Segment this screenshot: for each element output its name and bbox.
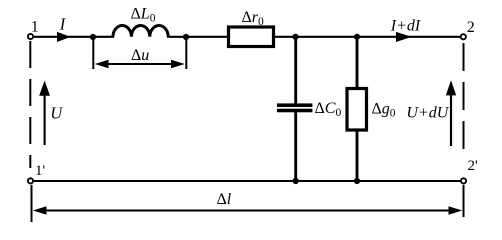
- current arrow I+dI: [396, 32, 412, 42]
- wire: node B to resistor: [186, 36, 228, 38]
- inductor L1 (ΔL0): [113, 25, 168, 36]
- svg-text:U: U: [50, 103, 63, 122]
- bottom wire: node F to terminal 2': [357, 180, 461, 182]
- wire: inductor to node B: [167, 36, 186, 38]
- terminal 1': [28, 178, 33, 183]
- svg-text:Δu: Δu: [131, 47, 149, 64]
- dashed line below terminal 2: [463, 43, 465, 158]
- svg-text:1: 1: [31, 19, 39, 36]
- capacitor branch lower wire: [294, 112, 297, 181]
- svg-text:2': 2': [468, 158, 479, 174]
- voltage arrow U+dU: [450, 92, 452, 146]
- Δl extension line right: [463, 185, 465, 217]
- Δu extension line right: [185, 37, 187, 69]
- Δu dimension arrow: [100, 63, 179, 65]
- node C (capacitor top tap): [292, 34, 298, 40]
- capacitor C1 (ΔC0) plates: [277, 103, 312, 107]
- current arrow I: [57, 32, 71, 42]
- terminal 2': [461, 178, 466, 183]
- conductance branch upper wire: [356, 37, 359, 88]
- conductance branch lower wire: [356, 130, 359, 181]
- voltage arrow U: [43, 92, 45, 145]
- Δl dimension arrow: [37, 210, 458, 212]
- svg-text:Δr0: Δr0: [242, 9, 265, 28]
- node D (conductance top tap): [354, 34, 360, 40]
- node E (capacitor bottom tap): [293, 178, 299, 184]
- Δu extension line left: [92, 37, 94, 69]
- bottom wire: 1' to node E: [34, 180, 296, 182]
- conductance G1 (Δg0): [347, 89, 367, 131]
- terminal 1: [28, 34, 33, 39]
- Δl extension line left: [31, 185, 33, 222]
- node B (right inductor node): [183, 34, 189, 40]
- svg-text:I+dI: I+dI: [390, 17, 421, 34]
- svg-text:Δg0: Δg0: [372, 101, 396, 120]
- svg-text:ΔC0: ΔC0: [315, 100, 342, 119]
- svg-text:Δl: Δl: [217, 191, 232, 208]
- svg-text:2: 2: [467, 19, 475, 36]
- bottom wire: node E to node F: [296, 180, 357, 182]
- svg-text:I: I: [59, 15, 67, 34]
- wire: node D to terminal 2: [357, 36, 461, 38]
- resistor R1 (Δr0): [229, 27, 274, 47]
- node F (conductance bottom tap): [354, 178, 360, 184]
- svg-text:1': 1': [35, 163, 46, 179]
- dashed line below terminal 1: [29, 41, 31, 168]
- svg-text:U+dU: U+dU: [406, 104, 449, 121]
- node A (left inductor node): [90, 34, 96, 40]
- wire: resistor to node C: [275, 36, 296, 38]
- wire: terminal 1 to node A: [34, 36, 93, 38]
- capacitor branch upper wire: [294, 37, 297, 104]
- svg-text:ΔL0: ΔL0: [131, 5, 156, 24]
- wire: node A to inductor: [93, 36, 114, 38]
- wire: node C to node D: [296, 36, 358, 38]
- terminal 2: [461, 34, 466, 39]
